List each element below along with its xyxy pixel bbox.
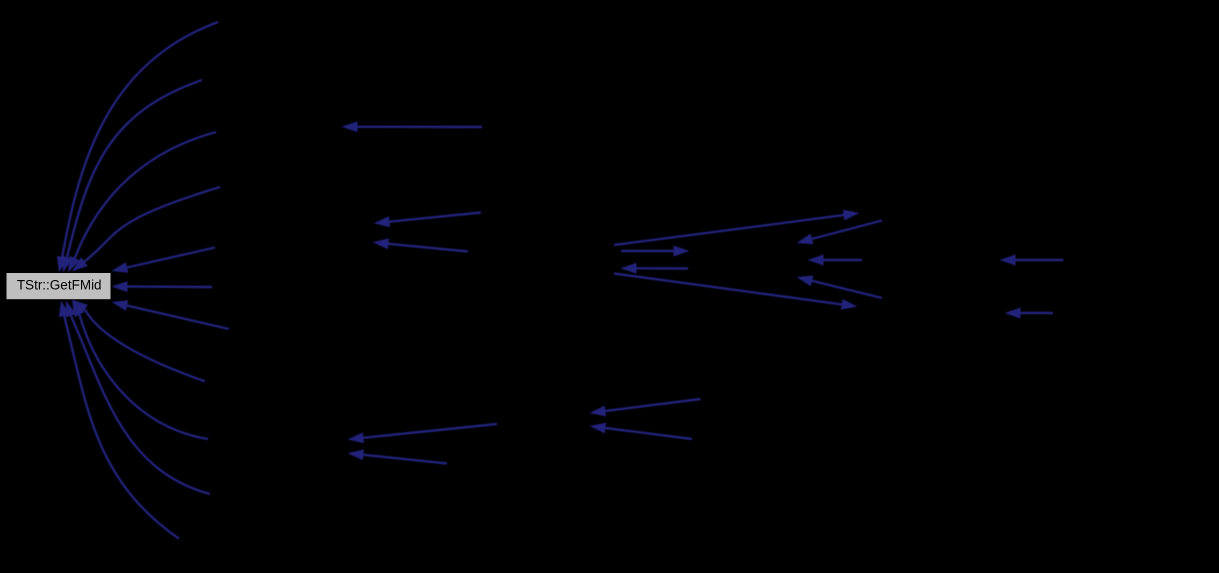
svg-text:TStr::GetFMid: TStr::GetFMid <box>17 277 102 292</box>
